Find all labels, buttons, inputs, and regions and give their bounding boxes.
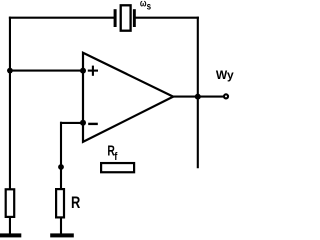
junction dot at op-amp output <box>195 94 201 100</box>
output terminal (open circle) <box>224 94 228 98</box>
wire left resistor to ground <box>9 218 11 235</box>
wire top-left horizontal (node A to crystal) <box>9 17 115 19</box>
op-amp U1 triangle <box>83 53 173 142</box>
wire op-amp output to terminal <box>171 96 224 98</box>
wire top-right horizontal (crystal to right rail) <box>135 17 199 19</box>
ground (left resistor) <box>0 233 21 237</box>
resistor Rf (feedback, horizontal body) <box>101 163 134 172</box>
op-amp U1 minus input marking <box>88 123 98 125</box>
resistor R body <box>56 189 64 217</box>
svg-text:ω: ω <box>140 0 147 9</box>
wire inverting branch vertical (to R) <box>60 122 62 189</box>
op-amp U1 plus input marking <box>88 66 98 76</box>
junction dot on inverting branch (Rf node) <box>58 164 64 170</box>
svg-text:Wy: Wy <box>216 68 234 82</box>
junction dot at left rail / + input wire <box>7 68 13 74</box>
wire inverting input (-) horizontal <box>60 122 84 124</box>
svg-text:R: R <box>71 195 81 213</box>
svg-text:s: s <box>147 1 151 12</box>
crystal X1 left plate <box>114 9 117 27</box>
resistor (left, unlabeled) body <box>6 189 15 217</box>
wire non-inverting input (+) horizontal <box>9 70 84 72</box>
svg-text:f: f <box>114 152 118 164</box>
wire left vertical rail <box>9 17 11 189</box>
junction dot at op-amp - input <box>80 120 86 126</box>
crystal X1 body <box>121 5 131 30</box>
wire resistor R to ground <box>60 218 62 235</box>
ground (resistor R) <box>50 233 74 237</box>
crystal X1 right plate <box>133 9 136 27</box>
junction dot at op-amp + input <box>80 68 86 74</box>
wire right vertical rail (feedback) <box>197 17 199 169</box>
